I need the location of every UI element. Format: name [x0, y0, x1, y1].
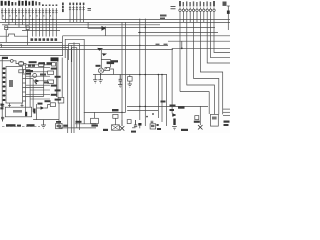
left edge bracket — [0, 44, 1, 47]
B3 labels — [38, 100, 51, 104]
wire W5 — [67, 50, 69, 134]
bus H8 — [0, 44, 168, 46]
bus H13 bottom — [127, 105, 208, 107]
wire — [43, 62, 45, 97]
right bottom labels — [181, 121, 230, 132]
ground G4 — [118, 85, 122, 88]
wire top border left circuit — [0, 55, 63, 57]
bus H6 — [63, 35, 230, 37]
bottom right cluster labels — [161, 101, 185, 112]
wire — [139, 19, 141, 120]
RN1 pins — [70, 6, 84, 23]
wire Q4 to R3 — [104, 70, 105, 72]
wire — [36, 104, 38, 120]
components row left mid — [19, 62, 24, 73]
transistor Q3 arrow — [34, 82, 36, 84]
right staircase vertical S2 — [187, 22, 215, 114]
wire jog — [101, 60, 110, 68]
wire from B1 — [5, 30, 7, 43]
wire R3 right — [110, 69, 114, 75]
RN1 tick bars — [69, 7, 85, 9]
wire — [13, 61, 18, 64]
wire D1 to bus — [104, 28, 106, 36]
resistor R3 — [105, 68, 110, 71]
transistor Q1 — [19, 61, 24, 66]
right staircase vertical S5 — [207, 22, 230, 63]
connector J1 contact symbols — [2, 10, 56, 14]
transistor Q1a — [10, 60, 13, 63]
address label row — [31, 38, 58, 41]
shield line left — [57, 58, 59, 98]
node box B1 — [5, 26, 8, 30]
J1 pin numbers — [3, 15, 51, 17]
wire bottom left — [33, 119, 59, 121]
resistor network RN1 vertical label — [62, 3, 64, 13]
left rail — [1, 57, 3, 119]
ground G6 — [172, 127, 177, 130]
diode D4 — [41, 106, 45, 110]
wire — [32, 79, 34, 113]
ground G2 — [93, 75, 98, 84]
bus H2 — [0, 21, 230, 23]
wire W7 — [73, 42, 75, 133]
U2 pin crosses — [8, 104, 24, 106]
RN1 top labels — [69, 3, 84, 5]
bus H1 — [2, 18, 230, 20]
resistor R4 — [128, 77, 133, 82]
TP text cluster — [51, 57, 59, 61]
right staircase vertical S1 — [179, 22, 181, 91]
capacitor C4 polarized — [173, 119, 175, 126]
diode D2 — [36, 80, 40, 83]
left rail diode marks — [3, 68, 5, 102]
wire — [157, 75, 159, 119]
U1 pin stubs left — [2, 69, 6, 101]
transistor Q2 — [33, 74, 37, 78]
connector J2 symbol mark — [171, 7, 176, 9]
left edge marks — [0, 104, 3, 110]
wire — [125, 22, 127, 112]
diode D3 — [173, 114, 177, 117]
right staircase vertical S3 — [194, 22, 219, 114]
polarity mark — [88, 9, 92, 11]
net label NL1 — [160, 15, 167, 20]
bus H7 — [0, 41, 62, 43]
RN1 element symbols — [70, 7, 84, 11]
wire from B2 — [27, 30, 29, 46]
right staircase vertical S4 — [200, 22, 222, 114]
right edge stub — [223, 111, 230, 113]
crystal X1 — [112, 125, 120, 130]
right edge stub — [223, 115, 230, 117]
ground G3 — [98, 73, 103, 83]
wire H15 — [127, 109, 158, 111]
connector J1 tick bars — [1, 10, 58, 12]
wire — [208, 92, 210, 115]
bus H5 — [138, 31, 218, 33]
wire stub — [132, 127, 136, 129]
capacitor C6 polarized — [138, 123, 141, 126]
capacitor C3 — [119, 75, 122, 85]
resistor R7 — [113, 114, 118, 118]
wire — [23, 64, 38, 65]
wire — [181, 41, 183, 48]
resistor R8 — [127, 120, 131, 124]
box B3 — [50, 103, 55, 107]
capacitor C1 — [1, 117, 4, 121]
dash line — [2, 125, 40, 127]
J2 pin labels — [179, 1, 215, 6]
nested corner wire W1 — [62, 36, 64, 56]
wire — [44, 64, 52, 66]
wire bottom mid — [75, 123, 96, 125]
U1 pin stubs right — [23, 65, 44, 101]
ground G5 — [128, 84, 132, 87]
capacitor C2 — [1, 105, 4, 107]
wire B3 — [44, 105, 50, 108]
wire H4b — [22, 29, 60, 31]
wire D4 — [37, 107, 41, 109]
wire corner — [59, 120, 96, 128]
bus H11 right — [168, 40, 230, 42]
diode A2 — [102, 53, 107, 56]
wire — [166, 75, 168, 127]
IC U3 box — [211, 114, 219, 126]
diode A1 — [97, 48, 103, 51]
test point TP1 — [227, 6, 230, 30]
wire — [161, 75, 163, 123]
C6 wire — [139, 126, 141, 129]
ground G1 — [41, 120, 46, 129]
R9 label — [29, 61, 37, 63]
IC U2 box — [5, 107, 31, 117]
nested corner wire W2 — [65, 39, 84, 124]
bus H4 — [5, 26, 215, 28]
wire W6 — [70, 45, 72, 133]
J1 pin labels — [1, 1, 58, 6]
right edge stubs — [223, 108, 230, 110]
wire below K1 — [58, 103, 60, 120]
wire — [56, 62, 58, 97]
capacitor C5 — [134, 120, 137, 127]
U2 top pin — [9, 103, 11, 107]
tick marks above U4 — [151, 121, 154, 122]
wire R7 to X1 — [114, 118, 116, 125]
U2 top pin 2 — [21, 103, 23, 107]
right staircase vertical S7 — [214, 22, 230, 52]
resistor R11 — [39, 63, 45, 66]
U2 inner label — [13, 110, 22, 113]
R3 label — [107, 62, 115, 65]
bottom mid: resistor R6 box — [91, 118, 99, 123]
mid cluster: transistor Q4 — [98, 68, 103, 73]
junction dot — [146, 116, 148, 118]
mid cluster labels — [40, 60, 118, 83]
wire — [29, 70, 31, 108]
connector J1 pins — [2, 8, 56, 37]
resistor R9 — [28, 64, 31, 67]
wires U1 to label column — [26, 67, 50, 99]
bottom-left text row — [6, 124, 35, 126]
relay K1 box — [58, 97, 64, 103]
S1 exit — [180, 91, 209, 93]
U1 inner label — [9, 80, 13, 87]
nested corner wire W3 — [69, 44, 80, 130]
bus H12 mid — [93, 74, 167, 76]
shield line right — [61, 58, 63, 98]
inline component wire — [0, 34, 28, 36]
input wire — [0, 60, 10, 62]
component column right of U2 — [25, 109, 36, 117]
bottom text marks — [56, 121, 108, 131]
TP1 label — [223, 2, 227, 6]
left column small text top — [2, 57, 8, 59]
wire Q4 up — [105, 68, 107, 70]
resistor R10 — [32, 64, 35, 67]
label box LB1 — [56, 124, 63, 129]
bus H11b right — [172, 47, 230, 49]
wire A1 down to Q4 — [100, 50, 102, 69]
transistor Q6 — [120, 126, 125, 131]
wire — [199, 106, 201, 125]
junction dots — [12, 19, 183, 115]
bus ticks mid — [156, 43, 168, 45]
resistor R2 — [48, 80, 54, 83]
left mid text labels — [39, 62, 61, 100]
R4 wires — [129, 75, 131, 77]
bus H10 — [0, 49, 173, 51]
wire left drop — [171, 48, 173, 113]
right staircase vertical S6 — [211, 22, 230, 57]
resistor R1 — [48, 71, 54, 74]
component CP1 — [52, 63, 56, 66]
J2 contact circles — [179, 9, 215, 11]
diode D1 wire — [88, 22, 102, 28]
wire — [121, 120, 123, 126]
resistor R5 — [195, 116, 199, 120]
diode D1 — [102, 26, 105, 30]
wire right of U1 — [25, 65, 27, 112]
bus H3 — [2, 24, 160, 26]
IC U4 box — [150, 124, 156, 129]
transistor Q5 — [198, 125, 203, 130]
labels row left mid — [26, 70, 33, 75]
label above R7 — [112, 109, 119, 111]
node box B2 — [26, 26, 29, 30]
U4 right label — [157, 124, 159, 126]
LB1 side text — [63, 125, 68, 127]
nested corner wire W4 — [72, 48, 77, 128]
connector J2 pins — [180, 8, 214, 23]
bottom small texts — [131, 128, 161, 133]
wire — [144, 19, 146, 126]
wire R6 up — [94, 112, 96, 118]
bus H14 bottom — [84, 111, 126, 113]
bus H9 — [0, 47, 69, 49]
vertical wire pair mid — [121, 22, 123, 126]
IC U1 box — [6, 67, 23, 104]
